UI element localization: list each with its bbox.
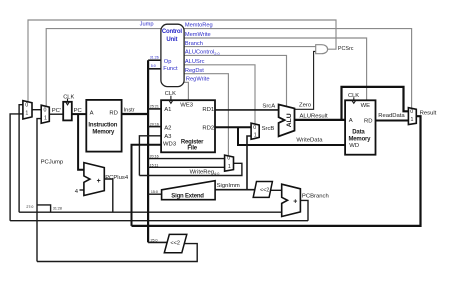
wire A3 feed [139,136,161,176]
svg-text:PCPlus4: PCPlus4 [105,175,129,181]
wire Instr [122,113,149,115]
clk wedge data memory [352,97,356,103]
wire SignImm tap to SrcB mux [247,136,251,190]
svg-text:SignImm: SignImm [217,183,240,189]
svg-text:+: + [97,178,101,185]
wire Op stub [148,59,161,61]
adder PCBranch [282,184,301,216]
svg-text:MemWrite: MemWrite [185,32,211,38]
svg-text:RD1: RD1 [202,107,214,113]
svg-text:+: + [293,198,297,205]
svg-text:ALU: ALU [286,113,293,127]
mux Jump (mux2) [41,105,49,123]
wire concat 31:28 step [37,205,51,212]
wire WriteReg loop [139,163,242,175]
wire PC out [72,113,87,115]
mux PCSrc (mux1) [23,101,32,119]
wire PCPlus4 bottom line [19,211,282,213]
svg-text:Instr: Instr [124,107,135,113]
svg-text:RegDst: RegDst [185,68,204,74]
alu U1 [279,105,295,137]
data memory [345,100,375,154]
svg-text:ALUResult: ALUResult [300,114,329,120]
and-gate PCSrc [316,45,328,54]
wire WriteData [238,127,345,145]
svg-text:PC′: PC′ [52,108,61,114]
wire RD1 SrcA [215,109,279,111]
svg-text:25:21: 25:21 [150,105,159,109]
svg-text:File: File [187,146,197,152]
svg-text:A: A [90,111,94,117]
svg-text:31:28: 31:28 [53,207,62,211]
svg-text:A3: A3 [164,134,172,140]
svg-text:<<2: <<2 [170,241,180,247]
svg-text:0: 0 [25,102,28,108]
wire WD3 feed (Result) [132,145,162,226]
svg-text:1: 1 [25,111,28,117]
wire mux1 out to mux2 [32,109,41,111]
svg-text:WE: WE [361,103,371,109]
svg-text:20:16: 20:16 [150,122,159,126]
wire 25:0 stub to shift [148,241,167,243]
svg-text:RD2: RD2 [202,125,214,131]
svg-text:20:16: 20:16 [150,154,159,158]
svg-text:0: 0 [44,108,47,114]
svg-text:27:0: 27:0 [26,205,33,209]
svg-text:Funct: Funct [163,66,178,72]
svg-text:RD: RD [364,118,373,124]
wire PC tap to PCPlus4 adder [78,114,84,170]
svg-text:SrcB: SrcB [262,126,275,132]
wire PC' (mux2 to PC) [49,113,63,115]
svg-text:WriteData: WriteData [296,138,323,144]
svg-text:15:11: 15:11 [150,163,159,167]
wire ALUResult loop over data memory [342,87,409,120]
svg-text:1: 1 [254,133,257,139]
svg-text:A: A [349,118,353,124]
wire Instr bus vertical [147,60,149,242]
wire ALUResult [295,119,346,121]
wire Funct stub [148,68,161,70]
svg-text:Zero: Zero [299,102,312,108]
adder PCPlus4 [84,163,104,196]
svg-text:1: 1 [411,117,414,123]
svg-text:A1: A1 [164,107,171,113]
svg-text:RD: RD [109,111,118,117]
svg-text:MemtoReg: MemtoReg [185,23,213,29]
svg-text:Memory: Memory [349,136,372,142]
svg-text:PCJump: PCJump [41,160,64,166]
shifter branch <<2 [253,182,272,198]
wire Jump (control left output to mux2 select) [46,29,161,107]
svg-text:SrcA: SrcA [262,103,275,109]
svg-text:Branch: Branch [185,41,203,47]
svg-text:Sign Extend: Sign Extend [171,193,204,199]
svg-text:0: 0 [253,125,256,131]
instruction memory [86,100,121,152]
svg-text:CLK: CLK [348,93,359,99]
wire PCSrc (AND output wrap to mux1 select) [28,20,336,102]
register PC [63,102,72,121]
svg-text:ALUSrc: ALUSrc [185,59,205,65]
wire SignImm [215,189,255,191]
clk wedge PC [66,99,70,105]
svg-text:Unit: Unit [166,37,177,43]
svg-text:Instruction: Instruction [88,122,117,128]
sign extend [162,181,216,200]
svg-text:Data: Data [352,129,365,135]
svg-text:PCSrc: PCSrc [338,46,354,52]
wire shift2 branch out [271,189,282,191]
mux SrcB [251,123,259,139]
wire mux1 in0 (PCPlus4 loop) [19,105,23,213]
wire Result loop [132,116,421,226]
wire Branch [184,46,316,48]
svg-text:CLK: CLK [165,91,176,97]
wire PCJump vertical [37,119,41,262]
wire Zero (ALU to AND gate) [295,51,316,109]
wire signext stub 15:0 [148,193,162,195]
wire RegWrite [184,82,188,100]
svg-text:25:0: 25:0 [151,238,158,242]
wire PCBranch bottom line [10,220,308,222]
svg-text:WD: WD [349,143,359,149]
svg-text:Jump: Jump [140,21,154,27]
svg-text:A2: A2 [164,125,171,131]
svg-text:WE3: WE3 [180,102,193,108]
wire const4 [80,189,84,191]
wire PCPlus4 adder out [104,179,113,212]
wire A1 stub [148,108,161,110]
mux RegDst [225,155,234,171]
wire mux1 in1 (PCBranch loop) [10,114,23,221]
svg-text:PC: PC [74,108,83,114]
svg-text:<<2: <<2 [260,188,269,194]
svg-text:CLK: CLK [63,94,74,100]
svg-text:1: 1 [44,116,47,122]
shifter jump <<2 [164,234,187,252]
svg-text:Memory: Memory [92,130,115,136]
wire ALUSrc [184,65,255,124]
wire ALUControl [184,55,287,106]
svg-text:15:0: 15:0 [151,190,158,194]
wire RD2 [215,126,251,128]
svg-text:WD3: WD3 [163,142,177,148]
wire jump shift out loop [37,244,197,262]
svg-text:1: 1 [228,164,231,170]
svg-text:5:0: 5:0 [151,64,156,68]
svg-text:0: 0 [227,156,230,162]
svg-text:Op: Op [164,59,172,65]
wire RegDst [184,74,228,156]
wire A2 stub [148,126,161,128]
wire branch adder out [300,200,308,220]
svg-text:PCBranch: PCBranch [302,194,329,200]
mux Result (MemtoReg) [408,108,416,125]
wire RegDst mux in1 stub [148,166,225,168]
control unit [161,24,184,86]
svg-text:ReadData: ReadData [378,113,405,119]
wire ReadData [375,120,408,122]
clk wedge register file [169,96,173,104]
wire MemtoReg [184,29,412,108]
register file [161,100,215,152]
svg-text:RegWrite: RegWrite [186,77,210,83]
wire MemWrite [184,38,367,100]
svg-text:Control: Control [162,29,182,35]
svg-text:0: 0 [410,109,413,115]
svg-text:31:26: 31:26 [150,55,159,59]
svg-text:Result: Result [420,111,437,117]
wire RegDst mux in0 stub [148,158,225,160]
